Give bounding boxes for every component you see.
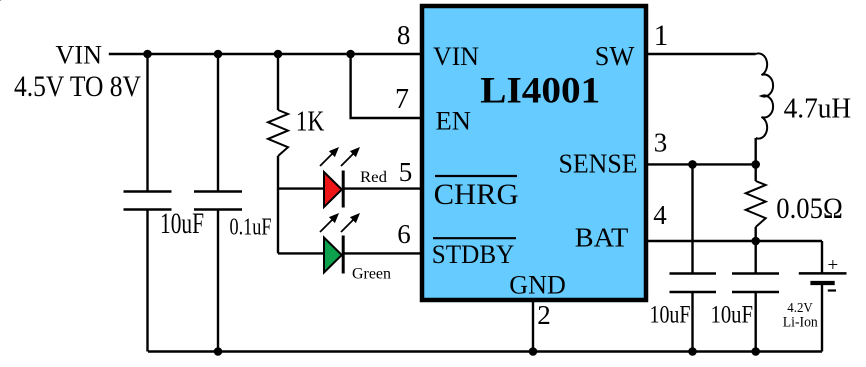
svg-text:10uF: 10uF — [650, 302, 691, 329]
svg-text:7: 7 — [395, 84, 409, 115]
svg-text:Li-Ion: Li-Ion — [783, 314, 819, 330]
svg-text:6: 6 — [397, 219, 411, 249]
svg-text:4: 4 — [653, 200, 667, 230]
svg-text:1: 1 — [654, 20, 669, 52]
svg-text:2: 2 — [537, 300, 551, 330]
svg-text:4.5V TO 8V: 4.5V TO 8V — [14, 70, 141, 103]
svg-text:VIN: VIN — [433, 42, 479, 71]
svg-text:STDBY: STDBY — [432, 239, 515, 269]
svg-text:4.7uH: 4.7uH — [784, 93, 852, 125]
svg-text:GND: GND — [509, 271, 566, 300]
svg-text:CHRG: CHRG — [434, 179, 519, 211]
svg-text:10uF: 10uF — [711, 302, 754, 329]
svg-text:EN: EN — [436, 105, 471, 135]
svg-text:SW: SW — [595, 41, 635, 71]
svg-text:SENSE: SENSE — [559, 148, 638, 178]
svg-text:BAT: BAT — [575, 223, 629, 253]
svg-text:0.05Ω: 0.05Ω — [776, 193, 843, 225]
svg-text:8: 8 — [397, 20, 411, 50]
svg-text:+: + — [828, 255, 839, 276]
svg-text:1K: 1K — [296, 107, 325, 138]
svg-text:3: 3 — [654, 128, 668, 158]
svg-text:5: 5 — [399, 157, 413, 187]
svg-text:Red: Red — [360, 169, 387, 186]
svg-text:VIN: VIN — [56, 41, 103, 70]
svg-text:LI4001: LI4001 — [480, 71, 600, 112]
svg-text:0.1uF: 0.1uF — [230, 214, 272, 240]
svg-text:Green: Green — [352, 266, 391, 283]
svg-text:10uF: 10uF — [160, 208, 204, 240]
